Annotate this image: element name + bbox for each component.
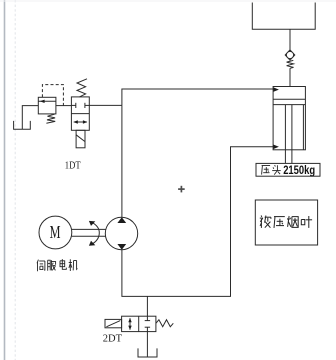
oil tank T2 (left)	[14, 121, 31, 129]
valve 1DT body	[71, 97, 89, 130]
top faint boundary	[0, 0, 336, 2]
tobacco box	[255, 200, 317, 245]
press head label box	[256, 163, 320, 176]
wire relief to 1DT	[56, 105, 72, 107]
label 被压烟叶 (drawn glyphs)	[260, 216, 312, 228]
pump P1 circle	[105, 217, 137, 249]
svg-text:M: M	[50, 223, 61, 243]
svg-text:1DT: 1DT	[65, 160, 81, 172]
page edge line	[4, 0, 6, 360]
shaft motor-pump	[72, 229, 106, 236]
pump bottom flow triangle	[117, 244, 126, 250]
wire 2DT to tank	[146, 332, 148, 357]
cylinder inner wall	[302, 105, 304, 150]
cylinder bottom port arrow	[274, 145, 279, 149]
wire tank to check valve	[289, 29, 291, 51]
wire branch to 2DT	[146, 296, 148, 316]
svg-text:2150kg: 2150kg	[283, 164, 315, 177]
valve 1DT bottom position flow arrow	[73, 120, 87, 123]
valve 2DT solenoid	[105, 319, 122, 327]
rotation arrow	[89, 221, 99, 246]
valve 2DT spring	[156, 320, 173, 327]
wire main pressure line top	[122, 89, 274, 105]
check valve spring	[287, 60, 294, 68]
relief valve internal passage	[38, 100, 56, 103]
motor M1 circle	[39, 216, 72, 249]
check valve V1 (ball + seat)	[285, 50, 295, 60]
valve 2DT body	[122, 316, 156, 331]
wire check valve to cylinder	[289, 68, 291, 86]
valve 1DT top position blocked ports	[71, 103, 89, 108]
svg-text:2DT: 2DT	[103, 334, 123, 345]
valve 2DT left position flow arrow	[128, 318, 131, 330]
wire pump to junction	[121, 105, 123, 217]
cylinder C1 body	[273, 87, 305, 150]
cylinder rod	[285, 105, 292, 164]
cylinder piston	[273, 99, 305, 104]
label 压头 (drawn glyphs)	[262, 165, 281, 175]
pump top flow triangle	[117, 217, 126, 223]
wire relief to tank	[22, 106, 38, 130]
cursor plus	[178, 186, 185, 193]
oil tank T3 (bottom)	[138, 348, 157, 357]
wire pump bottom	[122, 147, 274, 297]
relief valve RV1 body	[38, 97, 56, 114]
relief valve pilot dashed line	[42, 85, 63, 106]
wire 1DT branch	[89, 104, 122, 106]
valve 1DT solenoid	[76, 130, 85, 148]
label 伺服电机 (drawn glyphs)	[37, 259, 77, 271]
valve 1DT spring	[77, 79, 87, 97]
margin dashed guide	[14, 0, 16, 360]
oil tank T1 (top reservoir)	[252, 3, 315, 30]
valve 2DT right position blocked ports	[145, 316, 150, 331]
cylinder top port arrow	[274, 87, 279, 91]
relief valve spring	[46, 114, 55, 123]
